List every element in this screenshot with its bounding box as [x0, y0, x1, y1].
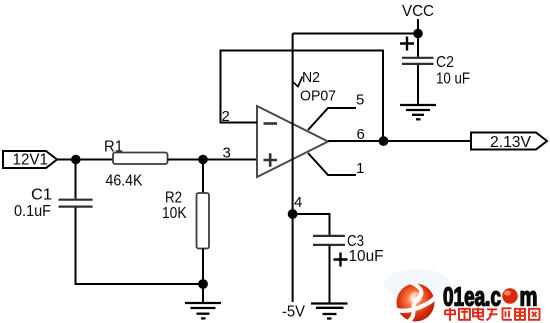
wire R2 to node C: [202, 249, 204, 285]
op-amp N2 OP07 triangle: [257, 106, 328, 177]
port 2.13V: [471, 133, 547, 152]
node A junction: [71, 155, 81, 165]
pin 5 stub: [308, 92, 364, 131]
wire node B to R2: [202, 160, 204, 194]
port 12V1: [3, 151, 57, 169]
svg-text:OP07: OP07: [300, 88, 336, 105]
svg-text:C1: C1: [31, 187, 52, 204]
svg-text:12V1: 12V1: [13, 152, 49, 169]
capacitor C2: [400, 33, 470, 88]
node VCC junction: [413, 29, 423, 39]
svg-text:-5V: -5V: [282, 304, 305, 321]
logo chinese tagline: [445, 308, 540, 321]
resistor R2: [162, 190, 209, 249]
ground G2: [400, 105, 436, 119]
pin 1 stub: [308, 153, 364, 177]
node D junction: [379, 136, 389, 146]
svg-text:m: m: [520, 284, 538, 312]
svg-text:10uF: 10uF: [349, 248, 384, 265]
node C junction: [198, 279, 208, 289]
svg-text:VCC: VCC: [402, 3, 434, 20]
svg-text:C2: C2: [436, 54, 454, 71]
wire input to R1: [57, 159, 113, 161]
wire C3 to ground: [329, 245, 331, 303]
svg-text:R1: R1: [104, 139, 123, 156]
wire pin4 to C3: [293, 214, 330, 235]
svg-text:10 uF: 10 uF: [436, 71, 470, 88]
svg-text:2.13V: 2.13V: [490, 134, 531, 151]
feedback wire pin2 to output: [221, 51, 384, 142]
capacitor C1: [14, 187, 93, 221]
resistor R1: [104, 139, 168, 190]
wire node A to C1: [75, 160, 77, 199]
VCC symbol: [402, 3, 434, 34]
node pin4 junction: [288, 209, 298, 219]
svg-text:5: 5: [356, 92, 364, 109]
svg-text:46.4K: 46.4K: [106, 173, 143, 190]
capacitor C3: [313, 233, 384, 267]
logo 01ea.com text: [443, 284, 538, 312]
output wire: [328, 140, 471, 142]
ground G1: [185, 284, 221, 318]
wire R1 to op-amp pin 3: [168, 159, 258, 161]
svg-text:3: 3: [223, 145, 231, 162]
op-amp labels N2 OP07: [293, 69, 336, 105]
VCC top rail wire: [293, 33, 418, 35]
logo 01ea.com emblem: [394, 283, 437, 322]
wire C1 to node C: [76, 208, 204, 285]
svg-text:0.1uF: 0.1uF: [14, 203, 51, 220]
wire C2 to ground: [417, 65, 419, 104]
logo background tint: [384, 269, 450, 299]
svg-text:1: 1: [356, 160, 364, 177]
svg-text:N2: N2: [302, 69, 320, 86]
V+ supply vertical wire through op-amp: [292, 34, 294, 303]
ground G3: [311, 304, 348, 319]
svg-text:10K: 10K: [162, 205, 187, 222]
node B junction: [198, 155, 208, 165]
svg-text:01ea.c: 01ea.c: [443, 284, 501, 312]
svg-text:R2: R2: [165, 190, 182, 207]
svg-text:4: 4: [294, 194, 302, 211]
